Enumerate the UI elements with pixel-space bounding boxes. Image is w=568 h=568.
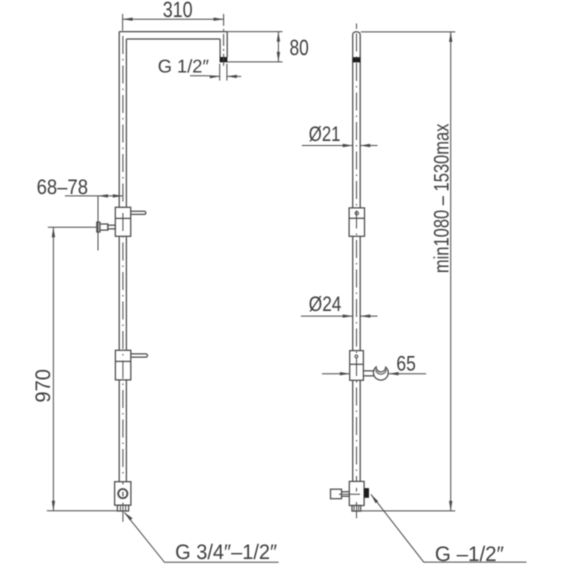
handset holder slider — [350, 351, 364, 381]
svg-text:310: 310 — [163, 0, 193, 22]
right figure: column pipe with rounded cap — [353, 32, 361, 482]
mixer handle — [131, 211, 146, 214]
bottom wall bracket right figure — [331, 481, 370, 511]
wire: centerline of left riser (dash-dot, drawn over components) — [122, 36, 124, 522]
dimension 80 — [227, 32, 309, 62]
handset holder cradle — [373, 367, 388, 380]
svg-text:65: 65 — [396, 352, 415, 375]
mixer body on left riser — [115, 207, 130, 236]
upper slider on right column — [349, 208, 364, 236]
dimension 310 — [123, 0, 224, 31]
svg-text:Ø21: Ø21 — [309, 123, 341, 146]
diverter slider on left riser — [115, 350, 130, 380]
svg-text:80: 80 — [290, 35, 309, 60]
svg-text:G 3/4″–1/2″: G 3/4″–1/2″ — [175, 541, 278, 564]
wire: centerline of right column (dash-dot, drawn over components) — [356, 34, 358, 519]
dimension 68-78 — [37, 176, 123, 251]
svg-text:min1080 – 1530max: min1080 – 1530max — [431, 123, 454, 273]
shower arm vertical drop to head connector — [220, 32, 227, 58]
label G 3/4"-1/2" with leader — [124, 512, 278, 564]
wire: left column riser pipe outer walls — [119, 32, 126, 482]
wire: centerline tick above right column cap — [356, 24, 358, 30]
dimension 970 — [32, 227, 118, 511]
label G -1/2" with leader — [371, 494, 527, 566]
wire: centerline of arm drop — [223, 14, 225, 69]
diverter pin — [131, 354, 148, 357]
shower arm top horizontal pipe — [119, 32, 227, 39]
svg-text:G –1/2″: G –1/2″ — [435, 543, 505, 566]
node: black band on right pipe — [353, 57, 361, 62]
svg-text:G 1/2″: G 1/2″ — [158, 55, 210, 76]
node: black connector G1/2 on arm — [220, 57, 228, 62]
dimension 65 — [322, 352, 426, 375]
dimension min1080-1530max — [361, 32, 456, 511]
handset holder arm — [363, 371, 374, 376]
label G 1/2" with leader — [158, 55, 242, 80]
svg-text:970: 970 — [32, 369, 55, 403]
bottom valve body left figure — [115, 482, 131, 511]
dimension D21 — [302, 123, 378, 147]
svg-text:Ø24: Ø24 — [309, 293, 342, 316]
wall supply elbow (flange, body, neck) — [97, 222, 116, 232]
dimension D24 — [301, 293, 378, 318]
